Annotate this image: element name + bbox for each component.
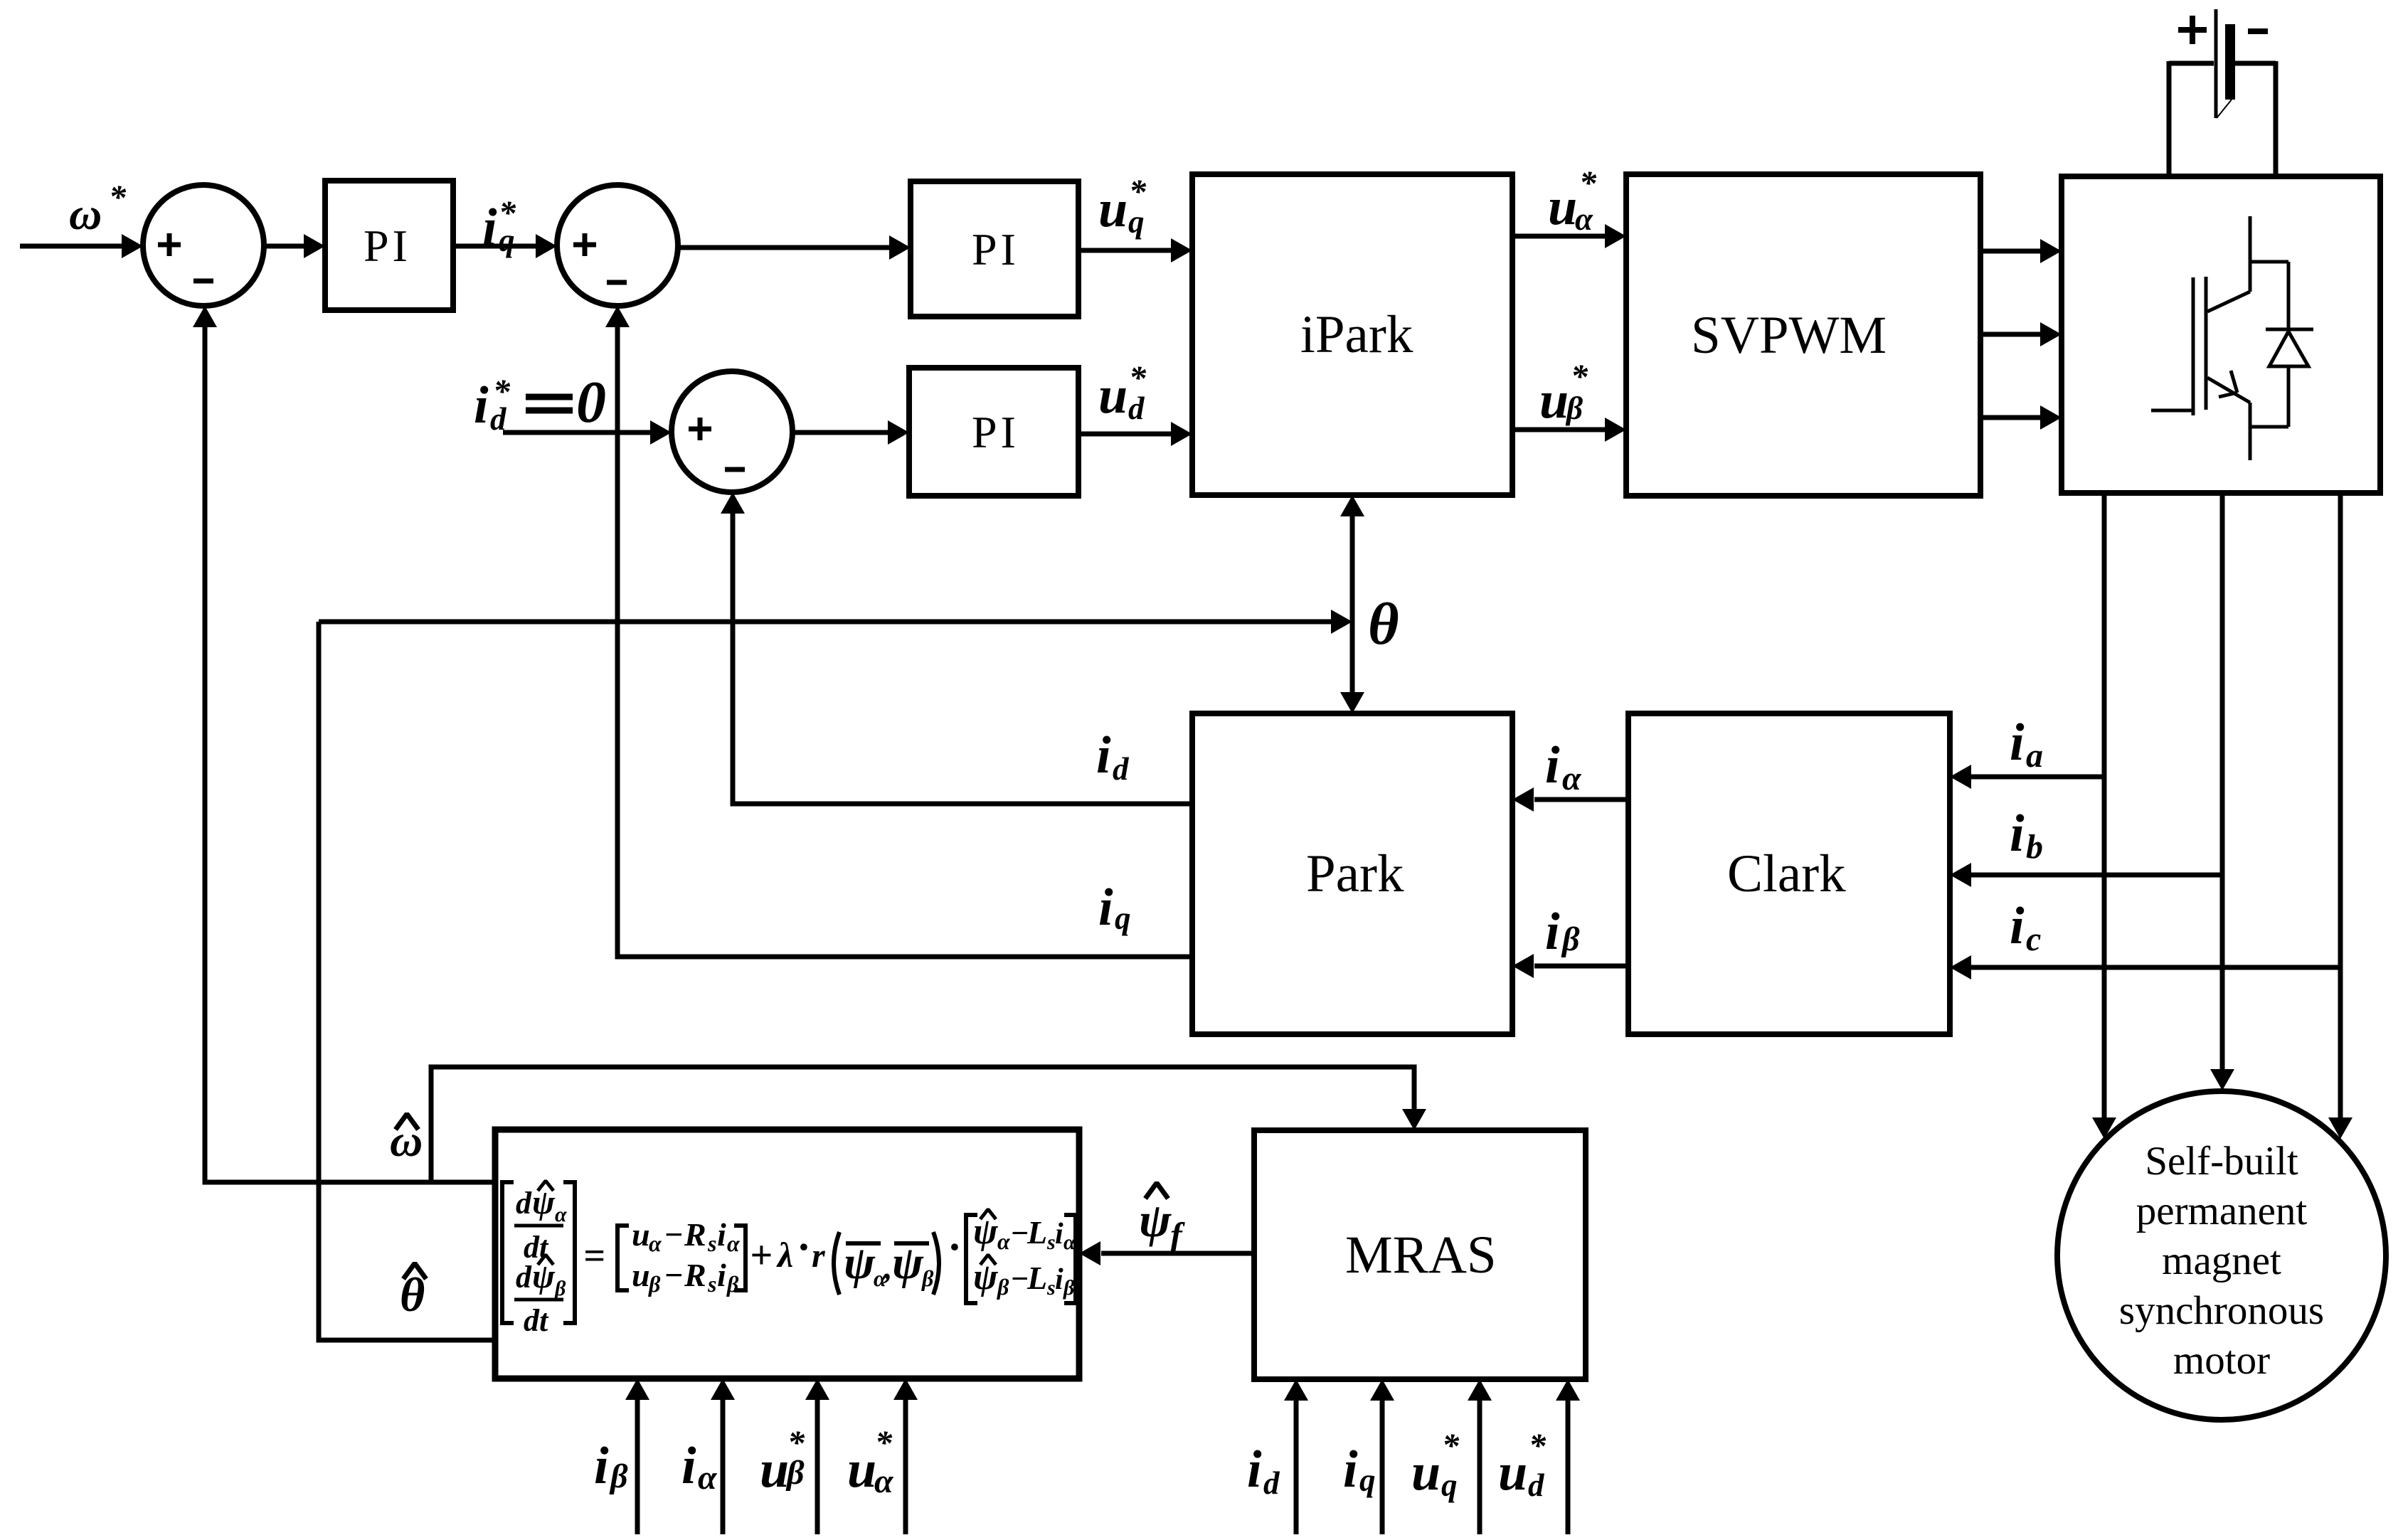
svg-text:u: u [760,1440,789,1499]
svg-text:α: α [555,1203,567,1226]
svg-text:MRAS: MRAS [1345,1226,1497,1285]
wire id input to MRAS [1284,1379,1308,1534]
svg-text:u: u [1098,366,1128,425]
svg-text:*: * [787,1424,805,1462]
svg-text:i: i [1098,878,1113,937]
svg-text:ψ: ψ [1139,1193,1172,1247]
node ia label [2010,713,2043,775]
svg-text:s: s [707,1271,716,1297]
node omega-hat label [390,1114,423,1166]
node psi-hat-f label [1139,1183,1185,1255]
PI controller PI1 [325,181,453,310]
svg-text:u: u [1498,1443,1527,1502]
svg-text:SVPWM: SVPWM [1691,306,1887,365]
svg-text:q: q [1359,1462,1376,1498]
svg-text:d: d [516,1186,532,1221]
node iq* label [482,194,516,258]
svg-text:i: i [2010,804,2025,863]
wire theta double arrow iPark-Park [1340,495,1364,713]
svg-text:i: i [717,1216,726,1253]
svg-text:dt: dt [524,1303,549,1338]
wire inverter phase c down [2328,493,2352,1139]
wire ualpha* iPark to SVPWM [1512,224,1626,248]
block Clark [1628,713,1950,1034]
svg-text:q: q [1115,901,1131,936]
svg-text:i: i [1545,903,1560,961]
svg-text:β: β [1063,1276,1075,1300]
svg-text:*: * [1579,164,1597,202]
node uq* label [1098,173,1147,240]
svg-text:i: i [474,376,489,435]
svg-text:ω: ω [390,1115,423,1166]
svg-text:β: β [726,1271,739,1297]
wire ib to Clark [1950,863,2222,887]
wire theta-hat feedback [319,622,495,1340]
svg-text:a: a [2026,737,2043,775]
svg-text:u: u [632,1216,650,1253]
wire omega* input [20,234,143,258]
wire omega-hat branch to MRAS [431,1067,1426,1182]
wire S1 to PI1 [264,234,325,258]
svg-text:,: , [884,1249,893,1285]
svg-text:*: * [1442,1427,1460,1465]
node ialpha label [1545,736,1582,797]
svg-text:*: * [493,373,511,410]
svg-text:u: u [1539,371,1569,430]
svg-text:−: − [664,1257,684,1293]
svg-text:b: b [2026,828,2043,866]
node ibeta label [1545,903,1580,961]
node ualpha* label [1548,164,1597,237]
svg-text:u: u [847,1440,876,1499]
svg-text:i: i [717,1257,726,1293]
svg-text:i: i [1055,1218,1063,1250]
svg-text:motor: motor [2173,1338,2270,1383]
node i-beta bottom label [594,1437,628,1495]
summing junction S2 [557,185,678,306]
svg-text:α: α [1562,760,1582,797]
svg-text:λ: λ [776,1235,793,1275]
svg-text:R: R [684,1257,706,1293]
node u-beta* bottom label [760,1424,805,1499]
svg-text:iPark: iPark [1300,305,1413,364]
svg-text:*: * [1571,358,1588,395]
svg-text:synchronous: synchronous [2119,1288,2324,1333]
wire id*=0 input [503,420,672,445]
node ic label [2010,897,2041,958]
wire iq input to MRAS [1370,1379,1394,1534]
svg-text:−: − [1010,1261,1029,1296]
summing junction S1 [143,185,264,306]
wire battery negative lead [2274,61,2279,176]
node observer equation text [502,1181,1076,1338]
svg-text:i: i [681,1437,696,1495]
svg-text:α: α [1575,201,1593,237]
svg-text:β: β [921,1265,934,1291]
svg-text:α: α [698,1459,718,1497]
node i-alpha bottom label [681,1437,718,1497]
svg-text:α: α [874,1462,894,1500]
node ubeta* label [1539,358,1588,430]
wire PI3 to iPark [1078,422,1192,446]
node iq label [1098,878,1131,937]
svg-text:α: α [649,1231,662,1256]
wire i-beta input to observer [625,1379,649,1534]
wire S3 to PI3 [792,420,909,445]
svg-text:d: d [1113,751,1130,787]
node id label [1096,726,1130,787]
svg-text:s: s [707,1231,716,1256]
wire u-alpha* input to observer [893,1379,918,1534]
wire id feedback [721,492,1192,804]
svg-text:s: s [1046,1231,1056,1254]
wire psi-hat-f MRAS to observer [1079,1241,1254,1265]
node uq* bottom label [1411,1427,1460,1503]
svg-text:i: i [482,198,497,257]
svg-text:u: u [1548,178,1577,236]
svg-text:*: * [1129,173,1147,211]
svg-text:permanent: permanent [2136,1189,2308,1233]
wire ibeta Clark to Park [1512,954,1628,978]
svg-text:u: u [1411,1443,1441,1502]
svg-text:i: i [1247,1440,1262,1499]
svg-text:L: L [1027,1214,1047,1250]
wire i-alpha input to observer [711,1379,735,1534]
wire ic to Clark [1950,955,2340,979]
svg-text:s: s [1046,1276,1056,1300]
svg-text:PI: PI [364,221,411,271]
svg-text:d: d [516,1260,532,1295]
node id bottom label [1247,1440,1280,1501]
block flux observer equation [495,1130,1079,1379]
wire iq feedback [605,306,1192,957]
wire battery positive lead [2167,61,2172,176]
svg-text:*: * [1129,359,1147,397]
wire u-beta* input to observer [805,1379,829,1534]
svg-text:PI: PI [972,224,1019,275]
PI controller PI3 [909,368,1078,496]
svg-text:u: u [632,1257,650,1293]
svg-text:c: c [2026,920,2041,958]
svg-text:i: i [594,1437,609,1495]
svg-text:Clark: Clark [1727,844,1846,903]
battery V1 [2169,9,2276,118]
node theta label [1368,591,1399,657]
wire PI1 to S2 [453,234,557,258]
svg-text:·: · [798,1223,809,1270]
svg-text:*: * [109,179,127,216]
block inverter [2062,176,2380,493]
svg-text:β: β [554,1277,566,1300]
node ud* bottom label [1498,1427,1547,1503]
block MRAS [1254,1130,1586,1379]
node theta-hat label [400,1263,426,1322]
svg-text:d: d [1263,1465,1280,1501]
svg-text:β: β [1561,920,1580,958]
svg-text:+: + [750,1233,773,1278]
wire SVPWM to inverter phase A [1980,239,2062,263]
svg-text:α: α [1063,1231,1076,1254]
wire inverter phase a down [2092,493,2116,1139]
block SVPWM [1626,174,1980,496]
transistor Q1 IGBT [2151,216,2288,460]
svg-text:β: β [609,1457,628,1495]
svg-text:u: u [1098,180,1128,238]
diode D1 freewheel [2266,262,2313,427]
wire inverter phase b down [2210,493,2234,1090]
node ib label [2010,804,2043,866]
svg-text:R: R [684,1216,706,1253]
wire PI2 to iPark [1078,238,1192,262]
svg-text:·: · [949,1223,960,1270]
svg-text:Park: Park [1306,844,1404,903]
svg-text:i: i [1545,736,1560,795]
svg-text:0: 0 [576,369,606,435]
svg-text:*: * [875,1424,893,1462]
svg-text:ω: ω [69,188,102,239]
svg-text:α: α [997,1228,1011,1254]
node u-alpha* bottom label [847,1424,894,1500]
svg-text:L: L [1027,1260,1047,1296]
block Park [1192,713,1512,1034]
summing junction S3 [672,371,792,492]
wire SVPWM to inverter phase C [1980,405,2062,430]
node id*=0 label [474,369,606,437]
wire ud* input to MRAS [1556,1379,1580,1534]
wire uq* input to MRAS [1468,1379,1492,1534]
svg-text:θ: θ [1368,591,1399,657]
svg-text:β: β [997,1274,1009,1300]
svg-text:q: q [1441,1467,1458,1503]
node iq bottom label [1343,1440,1376,1499]
wire ubeta* iPark to SVPWM [1512,418,1626,442]
block iPark [1192,174,1512,495]
node omega* label [69,179,127,239]
svg-text:i: i [1096,726,1111,785]
wire S2 to PI2 [678,235,911,260]
svg-text:−: − [664,1216,684,1253]
svg-text:i: i [2010,897,2025,955]
wire ialpha Clark to Park [1512,787,1628,812]
wire SVPWM to inverter phase B [1980,322,2062,346]
svg-text:r: r [812,1237,826,1275]
svg-text:β: β [1565,391,1583,426]
svg-text:magnet: magnet [2162,1238,2281,1283]
svg-text:*: * [1529,1427,1547,1465]
svg-text:i: i [1055,1263,1063,1296]
svg-text:i: i [2010,713,2025,772]
motor M1 PMSM [2057,1091,2386,1420]
node ud* label [1098,359,1147,426]
svg-text:α: α [727,1231,741,1256]
PI controller PI2 [911,181,1078,317]
svg-text:d: d [1528,1467,1545,1503]
svg-text:=: = [583,1234,605,1277]
wire omega-hat feedback to S1 [193,306,495,1182]
svg-text:PI: PI [972,407,1019,457]
svg-text:Self-built: Self-built [2145,1139,2298,1184]
wire theta feedback horizontal [319,610,1352,634]
wire ia to Clark [1950,765,2104,789]
svg-text:β: β [648,1271,661,1297]
svg-text:i: i [1343,1440,1358,1499]
svg-text:−: − [1010,1216,1029,1250]
svg-text:*: * [499,194,516,232]
